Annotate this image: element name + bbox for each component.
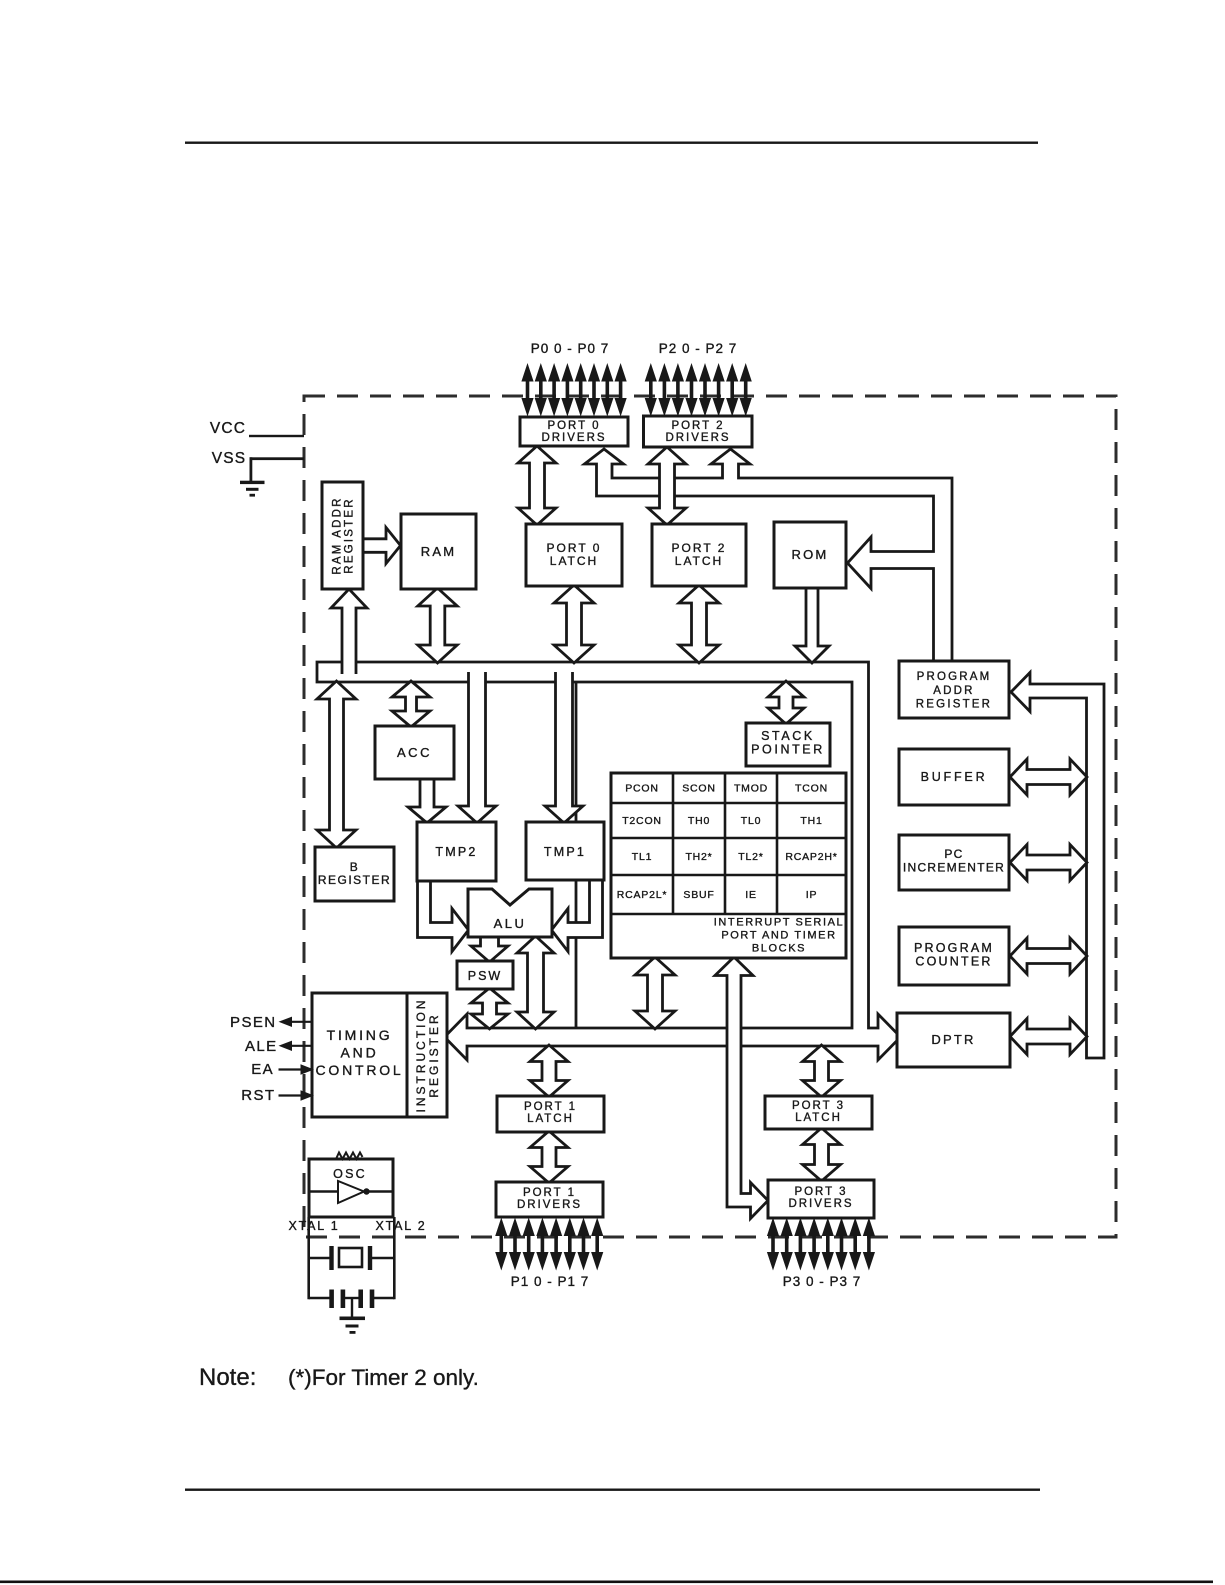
block PROGRAM COUNTER [899, 927, 1009, 985]
arrow bus1 up into RAM ADDR REGISTER [331, 589, 367, 674]
svg-text:CONTROL: CONTROL [315, 1062, 403, 1078]
svg-text:IP: IP [806, 889, 818, 901]
port 2 pin arrows (8x bidirectional) [645, 363, 657, 417]
page top rule [185, 142, 1038, 144]
right vertical channel with arrow into PROGRAM ADDR REGISTER [1011, 673, 1104, 1059]
svg-text:POINTER: POINTER [751, 743, 825, 757]
svg-text:TCON: TCON [795, 783, 828, 795]
port 1 pin arrows (8x bidirectional) [495, 1218, 507, 1271]
pin ALE arrow out [279, 1041, 293, 1051]
block ROM [774, 522, 846, 588]
svg-text:LATCH: LATCH [527, 1113, 574, 1125]
arrow bus2 to PORT 3 LATCH (bidirectional) [803, 1045, 841, 1097]
svg-text:ADDR: ADDR [933, 685, 974, 697]
arrow PORT 1 LATCH to PORT 1 DRIVERS (bidirectional) [530, 1131, 568, 1183]
crystal between XTAL1 and XTAL2 [309, 1257, 330, 1259]
svg-text:TL0: TL0 [741, 815, 762, 827]
svg-text:REGISTER: REGISTER [344, 497, 356, 573]
svg-text:TH1: TH1 [800, 815, 822, 827]
svg-text:DRIVERS: DRIVERS [517, 1199, 582, 1211]
svg-text:RCAP2H*: RCAP2H* [785, 851, 837, 863]
arrow bus1 to B REGISTER (bidirectional) [317, 681, 356, 848]
svg-text:P0 0 - P0 7: P0 0 - P0 7 [531, 341, 610, 356]
arrow PC INCREMENTER to right channel (bidirectional) [1010, 845, 1087, 881]
block B REGISTER [315, 847, 394, 901]
arrow RAM to bus1 (bidirectional) [418, 588, 457, 663]
special function register grid (PCON..IP) and INTERRUPT SERIAL PORT AND TIMER BLOCKS [611, 773, 846, 958]
block TMP2 [417, 822, 496, 881]
svg-text:PCON: PCON [625, 783, 659, 795]
pin RST arrow in [301, 1090, 315, 1100]
arrow PORT 0 LATCH to bus1 (bidirectional) [554, 585, 594, 663]
svg-text:PORT 1: PORT 1 [524, 1101, 577, 1113]
arrow PSW to bus2 (bidirectional) [471, 988, 508, 1029]
svg-text:ROM: ROM [792, 547, 829, 562]
svg-text:LATCH: LATCH [795, 1112, 842, 1124]
chip boundary dashed border [304, 396, 1116, 1237]
arrow PORT 0 DRIVERS to PORT 0 LATCH (bidirectional) [518, 446, 556, 525]
svg-text:REGISTER: REGISTER [427, 1012, 441, 1097]
svg-text:B: B [350, 860, 360, 874]
svg-text:PC: PC [944, 847, 963, 861]
wires from OSC XTAL1/XTAL2 pins [307, 1217, 310, 1299]
block DPTR [897, 1013, 1010, 1067]
svg-text:PSEN: PSEN [230, 1014, 276, 1031]
arrow ACC down to TMP2 [408, 772, 446, 823]
block PORT 3 LATCH [765, 1096, 872, 1129]
svg-text:(*)For Timer 2 only.: (*)For Timer 2 only. [288, 1365, 479, 1390]
svg-text:PORT 2: PORT 2 [671, 420, 724, 432]
svg-text:DRIVERS: DRIVERS [541, 432, 606, 444]
arrow bus1 to STACK POINTER (bidirectional) [768, 681, 804, 724]
load capacitors C1 and C2 [309, 1297, 330, 1299]
block PROGRAM ADDR REGISTER [899, 661, 1009, 718]
svg-text:TH0: TH0 [688, 815, 710, 827]
block PORT 3 DRIVERS [768, 1180, 874, 1218]
svg-text:TH2*: TH2* [685, 851, 712, 863]
page bottom edge line [0, 1581, 1213, 1584]
svg-text:RAM ADDR: RAM ADDR [332, 496, 344, 574]
svg-text:VSS: VSS [212, 450, 247, 467]
svg-text:RST: RST [241, 1087, 275, 1104]
svg-text:PORT 0: PORT 0 [547, 541, 602, 555]
svg-text:PSW: PSW [468, 969, 502, 983]
svg-text:OSC: OSC [333, 1167, 367, 1181]
block INSTRUCTION REGISTER [407, 993, 447, 1117]
arrow ALU to bus2 (bidirectional) [517, 936, 554, 1029]
svg-text:XTAL 1: XTAL 1 [288, 1219, 339, 1233]
pin PSEN arrow out [279, 1017, 293, 1027]
svg-text:STACK: STACK [761, 729, 815, 743]
bent arrow TMP2 into ALU left side [418, 874, 469, 952]
block RAM [401, 514, 476, 589]
svg-text:BLOCKS: BLOCKS [752, 943, 806, 955]
oscillator OSC block with amplifier and feedback squiggle [309, 1159, 393, 1217]
svg-text:INTERRUPT SERIAL: INTERRUPT SERIAL [714, 917, 845, 929]
long arrow up into interrupt/serial/timer block and bent right into PORT 3 DRIVERS [715, 957, 768, 1219]
svg-text:COUNTER: COUNTER [915, 955, 992, 969]
svg-text:T2CON: T2CON [622, 815, 662, 827]
address channel: up-arrow into PORT 0 DRIVERS, up-arrow into PORT 2 DRIVERS, bend down to PROGRAM ADDR REGISTER, branch arrow into ROM [585, 449, 953, 661]
block ACC [375, 726, 454, 779]
svg-text:EA: EA [251, 1061, 274, 1078]
svg-text:TIMING: TIMING [327, 1027, 393, 1043]
svg-text:PROGRAM: PROGRAM [914, 941, 994, 955]
svg-text:PORT AND TIMER: PORT AND TIMER [721, 930, 836, 942]
page bottom rule [185, 1489, 1040, 1491]
block PORT 1 DRIVERS [496, 1182, 603, 1217]
block STACK POINTER [746, 723, 830, 766]
svg-text:PORT 0: PORT 0 [547, 420, 600, 432]
block PORT 1 LATCH [497, 1096, 604, 1132]
arrow ALU down to PSW [471, 934, 508, 962]
block ALU [468, 889, 552, 937]
ground symbol (VSS) [240, 481, 265, 497]
bent arrow TMP1 into ALU right side [552, 874, 603, 952]
svg-text:BUFFER: BUFFER [921, 770, 988, 784]
svg-text:TMOD: TMOD [734, 783, 768, 795]
arrow BUFFER to right channel (bidirectional) [1010, 759, 1087, 795]
wire VCC to border [249, 435, 304, 437]
svg-text:PROGRAM: PROGRAM [917, 671, 992, 683]
arrow DPTR to right channel (bidirectional) [1010, 1019, 1087, 1055]
block PORT 0 DRIVERS [520, 417, 628, 446]
svg-text:INCREMENTER: INCREMENTER [903, 861, 1005, 875]
wire VSS to border [250, 457, 305, 460]
svg-text:PORT 2: PORT 2 [672, 541, 727, 555]
port 0 pin arrows (8x bidirectional) [521, 363, 533, 417]
arrow bus2 to PORT 1 LATCH (bidirectional) [530, 1045, 568, 1097]
block PSW [457, 961, 513, 989]
arrow RAM ADDR REGISTER to RAM [363, 528, 401, 564]
svg-text:SBUF: SBUF [683, 889, 714, 901]
block BUFFER [899, 749, 1009, 805]
svg-text:PORT 1: PORT 1 [523, 1187, 576, 1199]
block PORT 2 LATCH [652, 524, 746, 586]
svg-text:PORT 3: PORT 3 [792, 1100, 845, 1112]
svg-text:P2 0 - P2 7: P2 0 - P2 7 [659, 341, 738, 356]
svg-text:INSTRUCTION: INSTRUCTION [414, 998, 428, 1113]
arrow bus1 down to TMP2 [458, 672, 496, 823]
svg-text:TMP2: TMP2 [435, 845, 477, 859]
svg-text:TL2*: TL2* [738, 851, 763, 863]
svg-text:REGISTER: REGISTER [916, 699, 992, 711]
svg-text:ALU: ALU [494, 916, 527, 931]
block PC INCREMENTER [899, 835, 1009, 890]
svg-text:Note:: Note: [199, 1364, 256, 1391]
arrow PORT 2 DRIVERS to PORT 2 LATCH (bidirectional) [648, 447, 686, 525]
arrow ROM down to bus1 [795, 583, 829, 663]
svg-text:LATCH: LATCH [675, 554, 723, 568]
svg-text:ALE: ALE [245, 1038, 278, 1055]
block TMP1 [526, 822, 604, 880]
arrow PORT 2 LATCH to bus1 (bidirectional) [679, 585, 719, 663]
block TIMING AND CONTROL [312, 993, 407, 1117]
svg-text:P1 0 - P1 7: P1 0 - P1 7 [511, 1274, 590, 1289]
arrow PROGRAM COUNTER to right channel (bidirectional) [1010, 938, 1087, 974]
svg-text:DPTR: DPTR [931, 1032, 975, 1047]
svg-text:RCAP2L*: RCAP2L* [617, 889, 668, 901]
svg-text:IE: IE [745, 889, 757, 901]
arrow PORT 3 LATCH to PORT 3 DRIVERS (bidirectional) [803, 1128, 841, 1181]
arrow bus1 down to TMP1 [545, 672, 583, 823]
ground symbol (crystal) [351, 1298, 353, 1318]
svg-text:ACC: ACC [397, 745, 432, 760]
svg-text:P3 0 - P3 7: P3 0 - P3 7 [783, 1274, 862, 1289]
svg-text:TL1: TL1 [632, 851, 653, 863]
svg-text:AND: AND [341, 1045, 379, 1061]
svg-text:DRIVERS: DRIVERS [665, 432, 730, 444]
svg-text:TMP1: TMP1 [544, 845, 586, 859]
arrow register block to bus2 (bidirectional) [635, 957, 675, 1029]
block RAM ADDR REGISTER [322, 482, 363, 589]
module frame left edge (SFR/interrupt block) [575, 683, 578, 1027]
svg-text:SCON: SCON [682, 783, 716, 795]
svg-text:DRIVERS: DRIVERS [788, 1198, 853, 1210]
svg-text:PORT 3: PORT 3 [794, 1186, 847, 1198]
internal bus 1 (upper), right vertical link and internal bus 2 (lower) with arrow into INSTRUCTION REGISTER and arrow into DPTR [317, 662, 901, 1060]
svg-text:XTAL 2: XTAL 2 [375, 1219, 426, 1233]
svg-text:REGISTER: REGISTER [318, 873, 391, 887]
pin EA arrow in [301, 1064, 315, 1074]
wire VSS ground drop [250, 457, 253, 481]
svg-text:RAM: RAM [421, 544, 457, 559]
arrow bus1 to ACC (bidirectional) [392, 681, 430, 727]
block PORT 2 DRIVERS [644, 416, 753, 447]
svg-text:VCC: VCC [210, 420, 246, 437]
svg-text:LATCH: LATCH [550, 554, 598, 568]
port 3 pin arrows (8x bidirectional) [767, 1218, 779, 1271]
block PORT 0 LATCH [526, 524, 622, 586]
